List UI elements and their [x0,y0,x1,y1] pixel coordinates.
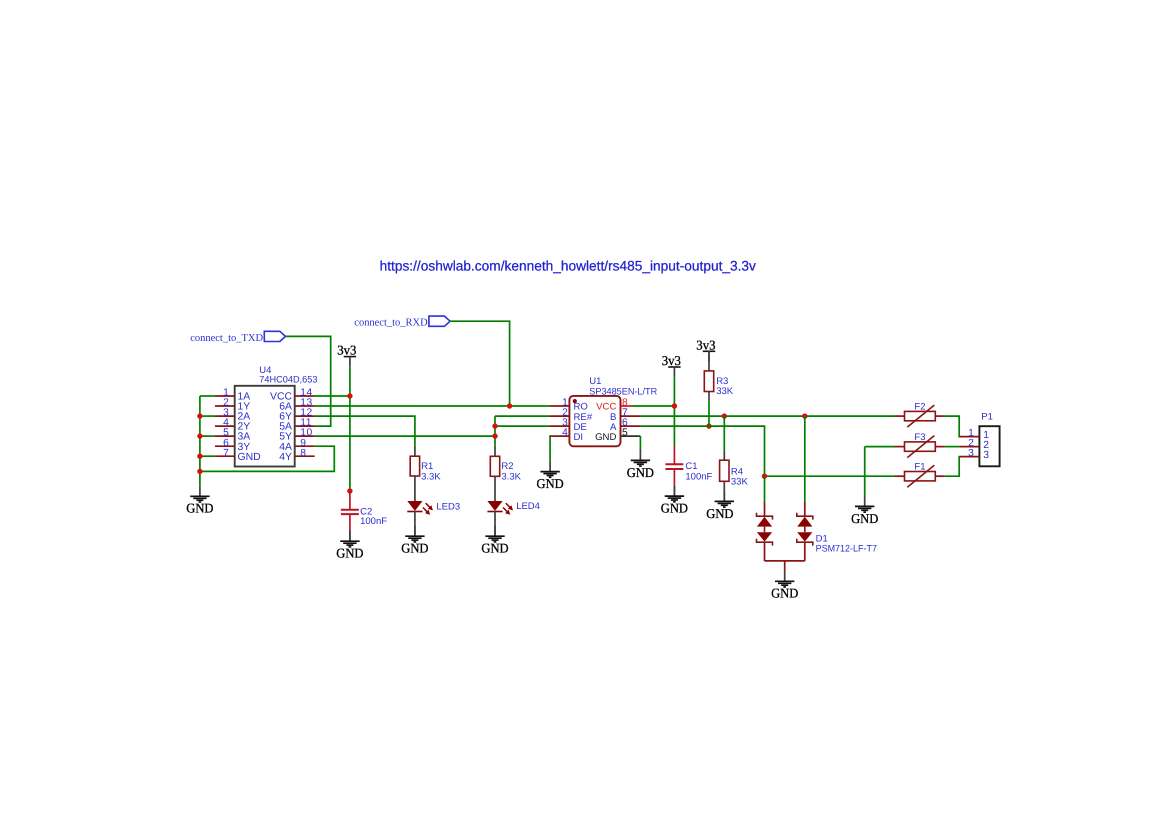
svg-text:33K: 33K [716,386,734,397]
svg-text:LED4: LED4 [516,501,540,512]
svg-text:100nF: 100nF [685,471,712,482]
wire 3v3 rail down to C2 [349,366,351,491]
svg-text:3v3: 3v3 [337,343,356,358]
LED LED4 [487,476,513,536]
svg-text:3v3: 3v3 [696,337,715,352]
wire RE#/DE tie vertical [494,416,496,446]
wire R3 to A net [708,400,710,426]
U1 pin 1 marker dot [573,399,577,403]
resistor R2 [490,456,499,476]
wire 6A / RO net (U4 pin 13 to U1 pin 1) [315,405,550,407]
svg-text:4Y: 4Y [279,452,292,463]
ground under DI [537,461,565,491]
U1 pin 6 (A) [610,418,640,433]
ground under F3 net [851,496,879,526]
junction on ground bus at pin 7 row [197,454,202,459]
U4 pin 12 (6Y) [279,408,314,423]
P1 pin 3 [960,448,990,461]
wire F1 to P1 pin 3 [945,457,960,477]
diode D1 (PSM712 TVS) branch 1 [757,501,773,561]
svg-text:SP3485EN-L/TR: SP3485EN-L/TR [589,387,657,398]
svg-text:GND: GND [481,541,509,556]
connector P1 body [979,426,999,466]
wire R2 lead [494,446,496,457]
svg-text:3.3K: 3.3K [501,471,521,482]
U1 pin 3 (DE) [549,418,586,433]
wire U1 pin 8 VCC to 3v3 rail [632,405,675,407]
svg-text:https://oshwlab.com/kenneth_ho: https://oshwlab.com/kenneth_howlett/rs48… [380,258,756,273]
junction on ground bus at loop row [197,469,202,474]
svg-text:3v3: 3v3 [662,353,681,368]
ground under U4 ground bus [186,486,214,516]
fuse F3 [895,436,945,458]
wire U1 pin 4 (DI) to ground [548,436,551,461]
IC U4 74HC04D body [235,386,295,467]
svg-text:3: 3 [968,448,974,459]
svg-text:LED3: LED3 [436,501,460,512]
svg-text:GND: GND [401,541,429,556]
svg-text:3.3K: 3.3K [421,471,441,482]
D1 center lead to ground [784,561,786,571]
svg-text:3: 3 [983,450,989,461]
wire connect_to_RXD down to RO net [450,321,510,406]
junction VCC / C1 node [672,403,677,408]
net flag connect_to_TXD [190,331,285,344]
svg-text:F3: F3 [914,432,925,443]
D1 common bottom bar [765,560,805,562]
svg-text:GND: GND [336,546,364,561]
wire U4 left ground bus vertical [199,396,201,486]
ground under C2 [336,531,364,561]
U4 pin 14 (VCC) [270,388,315,403]
svg-text:DI: DI [574,432,584,443]
resistor R1 [410,456,419,476]
wire R4 gray top lead [723,451,725,460]
junction 3v3 / VCC [347,393,352,398]
wire 6Y net (U4 pin 12) to R1 [315,416,415,446]
U4 pin 11 (5A) [279,418,314,433]
wire F3 left to ground drop [865,446,895,448]
wire to U4 pin 3 [200,415,215,417]
wire to U4 pin 5 [200,435,215,437]
P1 pin 1 [960,428,990,441]
U1 pin 2 (RE#) [549,408,592,423]
junction RE#/DE tie at DE row [492,423,497,428]
svg-text:4: 4 [562,428,568,439]
svg-text:U1: U1 [589,376,601,387]
junction R3 on A net [706,423,711,428]
wire B net (U1 pin 7 to F2) [640,415,894,417]
svg-text:GND: GND [706,506,734,521]
svg-text:7: 7 [223,448,229,459]
U4 pin 1 (1A) [215,388,250,403]
svg-text:PSM712-LF-T7: PSM712-LF-T7 [816,544,877,555]
svg-text:33K: 33K [731,477,749,488]
ground under LED4 [481,526,509,556]
U4 pin 13 (6A) [279,398,314,413]
wire ground drop for F3 net [864,447,866,497]
junction TVS branch 2 on B net [802,413,807,418]
svg-text:GND: GND [661,501,689,516]
svg-text:GND: GND [238,452,261,463]
diode D1 branch 2 [797,501,813,561]
svg-text:100nF: 100nF [360,516,387,527]
U4 pin 2 (1Y) [215,398,250,413]
wire connect_to_TXD to U4 pin 11 (5A) [286,336,331,426]
wire R4 bottom lead [723,481,725,501]
ground under D1 [771,571,799,601]
LED LED3 [407,476,433,536]
svg-text:5: 5 [622,428,628,439]
junction at C2 top [347,488,352,493]
svg-text:GND: GND [595,432,616,443]
svg-text:GND: GND [537,476,565,491]
svg-text:GND: GND [186,501,214,516]
capacitor C2 [341,491,359,541]
U1 pin 7 (B) [610,408,640,423]
junction RE#/DE tie at 5Y row [492,433,497,438]
fuse F2 [895,405,945,427]
wire R1 lead [414,446,416,457]
wire R3 gray top lead [708,351,710,371]
U1 pin 8 (VCC) [596,398,631,413]
wire U4 pin 9 (4A) loop to ground bus [200,446,334,471]
svg-text:GND: GND [771,586,799,601]
svg-text:GND: GND [851,511,879,526]
ground under U1 pin 5 [627,450,655,480]
resistor R4 [720,460,729,481]
ground under C1 [661,486,689,516]
wire R4 top green [723,416,725,451]
ground under LED3 [401,526,429,556]
svg-text:74HC04D,653: 74HC04D,653 [259,374,317,385]
U4 pin 10 (5Y) [279,428,314,443]
wire to U4 pin 1 [200,395,215,397]
wire U1 pin 5 GND down [639,436,641,451]
power flag 3v3 for U4 VCC [337,343,356,367]
IC U1 SP3485EN-L/TR body [569,396,620,446]
U4 pin 7 (GND) [215,448,261,463]
wire to U1 pin 2 (RE#) [495,415,549,417]
U1 pin 1 (RO) [549,398,587,413]
wire to U1 pin 3 (DE) [495,425,549,427]
junction on ground bus at pin 3 row [197,413,202,418]
svg-text:connect_to_RXD: connect_to_RXD [354,318,428,329]
wire to U4 pin 7 [200,455,215,457]
resistor R3 [704,371,713,392]
wire 5Y net (U4 pin 10) to RE#/DE tie [315,435,495,437]
ground under R4 [706,491,734,521]
junction on ground bus at pin 5 row [197,433,202,438]
wire B net down to TVS branch 2 [804,416,806,501]
power flag 3v3 for U1 VCC [662,353,681,377]
wire A net (U1 pin 6 right then down) [640,426,764,476]
U4 pin 4 (2Y) [215,418,250,433]
U4 pin 6 (3Y) [215,438,250,453]
junction RXD drop on RO net [507,403,512,408]
svg-text:connect_to_TXD: connect_to_TXD [190,333,263,344]
svg-text:F1: F1 [914,461,925,472]
wire F2 to P1 pin 1 [945,416,960,437]
svg-text:GND: GND [627,465,655,480]
svg-text:P1: P1 [981,412,993,423]
U4 pin 3 (2A) [215,408,250,423]
wire U4 pin 14 (VCC) to 3v3 rail [315,395,350,397]
P1 pin 2 [960,438,990,451]
U4 pin 9 (4A) [279,438,314,453]
fuse F1 [895,465,945,487]
wire F3 to P1 pin 2 [945,446,960,448]
junction A net at F1 row [762,474,767,479]
U1 pin 4 (DI) [549,428,583,443]
capacitor C1 [665,446,683,496]
wire 3v3 rail 2 down through VCC to C1 [673,377,675,447]
wire R3 bottom lead [708,392,710,401]
U4 pin 8 (4Y) [279,448,314,463]
wire A net row to F1 [765,475,895,477]
U4 pin 5 (3A) [215,428,250,443]
net flag connect_to_RXD [354,316,450,329]
power flag 3v3 for R3 [696,337,715,361]
U1 pin 5 (GND) [595,428,640,443]
junction R4 on B net [722,413,727,418]
wire A net down to TVS branch 1 [764,476,766,501]
svg-text:F2: F2 [914,401,925,412]
svg-text:8: 8 [300,448,306,459]
